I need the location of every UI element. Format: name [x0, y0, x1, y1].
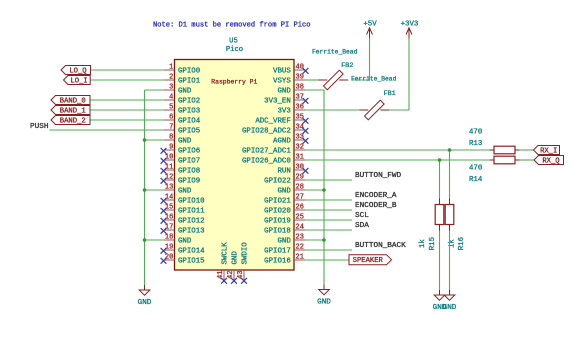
svg-text:13: 13: [165, 184, 173, 192]
svg-text:Pico: Pico: [226, 46, 243, 54]
U5 pin 5 (GPIO3): [164, 104, 200, 116]
svg-text:GPIO10: GPIO10: [178, 197, 205, 205]
U5 pin 13 (GND): [164, 184, 192, 196]
svg-text:GPIO8: GPIO8: [178, 167, 200, 175]
U5 pin 16 (GPIO12): [161, 214, 205, 226]
wire R13 to RX_I: [520, 149, 534, 151]
U5 pin 26 (GPIO20): [264, 204, 305, 216]
svg-text:GPIO13: GPIO13: [178, 227, 205, 235]
svg-text:3: 3: [169, 84, 173, 92]
svg-text:BAND_1: BAND_1: [60, 107, 86, 115]
wire pin 18 GND: [145, 239, 165, 241]
U5 pin 37 (3V3_EN): [264, 94, 308, 106]
svg-text:1: 1: [169, 64, 173, 72]
wire pin 21 to SPEAKER: [305, 259, 349, 261]
svg-text:GPIO22: GPIO22: [264, 177, 291, 185]
wire pin 26 to ENCODER_B: [305, 209, 352, 211]
ferrite bead FB2: [318, 70, 348, 90]
svg-text:GND: GND: [231, 251, 239, 265]
svg-text:AGND: AGND: [273, 137, 291, 145]
junction left GND pin 13: [143, 188, 147, 192]
svg-text:FB2: FB2: [341, 62, 353, 70]
U5 pin 11 (GPIO8): [161, 164, 201, 176]
wire pin 31 to R14: [305, 159, 494, 161]
svg-text:GPIO5: GPIO5: [178, 127, 200, 135]
svg-text:SPEAKER: SPEAKER: [353, 257, 384, 265]
svg-text:36: 36: [296, 104, 304, 112]
U5 pin 18 (GND): [164, 234, 192, 246]
svg-text:ENCODER_B: ENCODER_B: [355, 202, 397, 210]
svg-text:25: 25: [296, 214, 304, 222]
svg-text:GPIO14: GPIO14: [178, 247, 205, 255]
svg-text:470: 470: [469, 165, 482, 173]
svg-text:GPIO17: GPIO17: [264, 247, 291, 255]
U5 pin 7 (GPIO5): [164, 124, 200, 136]
svg-text:40: 40: [296, 64, 304, 72]
svg-text:U5: U5: [229, 38, 238, 46]
svg-text:24: 24: [296, 224, 304, 232]
wire pin 25 to SCL: [305, 219, 352, 221]
U5 pin 36 (3V3): [277, 104, 305, 116]
svg-text:43: 43: [237, 271, 245, 279]
wire pin 39 to FB2: [305, 79, 319, 81]
ground R15 GND: [433, 290, 447, 312]
svg-text:29: 29: [296, 174, 304, 182]
wire BAND_1 to pin 5: [90, 109, 164, 111]
svg-text:39: 39: [296, 74, 304, 82]
svg-text:GPIO16: GPIO16: [264, 257, 291, 265]
svg-text:R15: R15: [429, 237, 437, 250]
svg-text:30: 30: [296, 164, 304, 172]
svg-text:GPIO11: GPIO11: [178, 207, 205, 215]
svg-text:GPIO19: GPIO19: [264, 217, 291, 225]
resistor R14: [490, 156, 520, 164]
svg-text:GND: GND: [277, 237, 291, 245]
junction RX_Q / R15: [438, 158, 442, 162]
svg-text:6: 6: [169, 114, 173, 122]
wire FB1 to +3V3 corner: [389, 39, 409, 111]
svg-text:41: 41: [217, 271, 225, 279]
svg-text:RUN: RUN: [277, 167, 290, 175]
global label BAND_2: [51, 116, 90, 126]
ground center GND: [317, 285, 331, 307]
power +5V: [363, 20, 377, 38]
svg-text:470: 470: [469, 128, 482, 136]
svg-text:GPIO26_ADC0: GPIO26_ADC0: [242, 157, 291, 165]
svg-text:+5V: +5V: [363, 20, 377, 28]
wire LO_I to pin 2: [90, 79, 164, 81]
wire pin 32 to R13: [305, 149, 494, 151]
svg-text:GND: GND: [178, 87, 192, 95]
svg-text:GND: GND: [178, 187, 192, 195]
ferrite bead FB1: [359, 100, 389, 120]
svg-text:19: 19: [165, 244, 173, 252]
U5 pin 4 (GPIO2): [164, 94, 200, 106]
svg-text:GPIO27_ADC1: GPIO27_ADC1: [242, 147, 291, 155]
svg-text:7: 7: [169, 124, 173, 132]
wire pin 38 GND: [305, 90, 324, 285]
svg-text:35: 35: [296, 114, 304, 122]
U5 pin 24 (GPIO18): [264, 224, 305, 236]
svg-text:10: 10: [165, 154, 173, 162]
wire pin 24 to SDA: [305, 229, 352, 231]
U5 pin 27 (GPIO21): [264, 194, 305, 206]
wire R15 to ground: [439, 231, 441, 291]
svg-text:5: 5: [169, 104, 173, 112]
wire pin 22 to BUTTON_BACK: [305, 249, 352, 251]
U5 pin 39 (VSYS): [273, 74, 305, 86]
svg-text:GPIO6: GPIO6: [178, 147, 200, 155]
svg-text:R16: R16: [458, 237, 466, 250]
svg-text:23: 23: [296, 234, 304, 242]
wire left GND vertical: [144, 90, 146, 285]
junction left GND pin 18: [143, 238, 147, 242]
wire PUSH to pin 7: [50, 129, 165, 131]
U5 pin 30 (RUN): [277, 164, 308, 176]
svg-text:GPIO9: GPIO9: [178, 177, 200, 185]
global label BAND_1: [51, 106, 90, 116]
U5 pin 29 (GPIO22): [264, 174, 305, 186]
svg-text:LO_I: LO_I: [70, 77, 87, 85]
svg-text:20: 20: [165, 254, 173, 262]
svg-text:27: 27: [296, 194, 304, 202]
IC U5 Raspberry Pi Pico body: [175, 60, 295, 271]
svg-text:BUTTON_BACK: BUTTON_BACK: [355, 242, 406, 250]
U5 pin 3 (GND): [164, 84, 192, 96]
svg-text:15: 15: [165, 204, 173, 212]
resistor R15: [435, 199, 444, 231]
svg-text:BAND_2: BAND_2: [60, 117, 86, 125]
svg-text:SDA: SDA: [355, 222, 369, 230]
U5 pin 2 (GPIO1): [164, 74, 201, 86]
svg-text:28: 28: [296, 184, 304, 192]
svg-text:14: 14: [165, 194, 173, 202]
wire pin 8 GND: [145, 139, 165, 141]
svg-text:R13: R13: [469, 140, 482, 148]
svg-text:12: 12: [165, 174, 173, 182]
svg-text:9: 9: [169, 144, 173, 152]
svg-text:GPIO1: GPIO1: [178, 77, 201, 85]
svg-text:GND: GND: [277, 87, 291, 95]
svg-text:1k: 1k: [419, 239, 427, 248]
power +3V3: [401, 20, 419, 38]
svg-text:11: 11: [165, 164, 173, 172]
svg-text:PUSH: PUSH: [30, 123, 48, 131]
svg-text:GPIO4: GPIO4: [178, 117, 201, 125]
resistor R16: [445, 199, 454, 231]
wire pin 27 to ENCODER_A: [305, 199, 352, 201]
svg-text:RX_Q: RX_Q: [542, 157, 559, 165]
svg-text:GND: GND: [277, 187, 291, 195]
U5 pin 1 (GPIO0): [164, 64, 200, 76]
svg-text:GPIO28_ADC2: GPIO28_ADC2: [242, 127, 291, 135]
global label RX_Q: [534, 156, 564, 166]
U5 pin 41 (SWCLK) bottom: [217, 242, 230, 284]
wire R14 to RX_Q: [520, 159, 535, 161]
svg-text:3V3: 3V3: [277, 107, 290, 115]
svg-text:8: 8: [169, 134, 173, 142]
U5 pin 6 (GPIO4): [164, 114, 201, 126]
wire pin 13 GND: [145, 189, 165, 191]
U5 pin 9 (GPIO6): [161, 144, 201, 156]
svg-text:37: 37: [296, 94, 304, 102]
U5 pin 38 (GND): [277, 84, 305, 96]
svg-text:FB1: FB1: [384, 90, 396, 98]
wire pin 23 GND: [305, 239, 324, 241]
resistor R13: [490, 146, 520, 154]
svg-text:3V3_EN: 3V3_EN: [264, 97, 291, 105]
svg-text:GND: GND: [178, 137, 192, 145]
svg-text:17: 17: [165, 224, 173, 232]
svg-text:32: 32: [296, 144, 304, 152]
wire BAND_0 to pin 4: [90, 99, 164, 101]
U5 pin 19 (GPIO14): [161, 244, 206, 256]
svg-text:LO_Q: LO_Q: [69, 67, 86, 75]
global label RX_I: [534, 146, 560, 156]
svg-text:26: 26: [296, 204, 304, 212]
U5 pin 42 (GND) bottom: [227, 251, 240, 284]
U5 pin 31 (GPIO26_ADC0): [242, 154, 305, 166]
svg-text:SCL: SCL: [355, 212, 369, 220]
svg-text:21: 21: [296, 254, 304, 262]
U5 pin 12 (GPIO9): [161, 174, 201, 186]
wire FB2 to +5V corner: [352, 39, 370, 81]
U5 pin 43 (SWDIO) bottom: [237, 242, 250, 284]
svg-text:SWCLK: SWCLK: [221, 242, 229, 265]
svg-text:42: 42: [227, 271, 235, 279]
svg-text:SWDIO: SWDIO: [241, 242, 249, 265]
ground left GND: [138, 285, 152, 307]
svg-text:16: 16: [165, 214, 173, 222]
wire pin 28 GND: [305, 189, 324, 191]
svg-text:GPIO20: GPIO20: [264, 207, 291, 215]
svg-text:GND: GND: [178, 237, 192, 245]
ground R16 GND: [443, 290, 457, 312]
svg-text:BUTTON_FWD: BUTTON_FWD: [355, 172, 402, 180]
wire pin 29 to BUTTON_FWD: [305, 179, 352, 181]
global label SPEAKER: [349, 255, 392, 265]
junction center GND pin 23: [322, 238, 326, 242]
global label LO_Q: [61, 66, 91, 76]
svg-text:GPIO2: GPIO2: [178, 97, 200, 105]
svg-text:+3V3: +3V3: [401, 20, 419, 28]
svg-text:22: 22: [296, 244, 304, 252]
wire LO_Q to pin 1: [91, 69, 165, 71]
svg-text:31: 31: [296, 154, 304, 162]
wire pin 36 to FB1: [305, 109, 359, 111]
U5 pin 33 (AGND): [273, 134, 308, 146]
junction center GND pin 28: [322, 188, 326, 192]
U5 pin 22 (GPIO17): [264, 244, 305, 256]
svg-text:GND: GND: [138, 299, 152, 307]
svg-text:GPIO21: GPIO21: [264, 197, 291, 205]
U5 pin 40 (VBUS): [273, 64, 308, 76]
global label BAND_0: [51, 96, 90, 106]
svg-text:Note: D1 must be removed from: Note: D1 must be removed from PI Pico: [153, 21, 311, 29]
U5 pin 20 (GPIO15): [161, 254, 205, 266]
svg-text:GND: GND: [317, 299, 331, 307]
U5 pin 21 (GPIO16): [264, 254, 305, 266]
svg-text:2: 2: [169, 74, 173, 82]
svg-text:R14: R14: [469, 176, 483, 184]
U5 pin 34 (GPIO28_ADC2): [242, 124, 308, 136]
svg-text:Ferrite_Bead: Ferrite_Bead: [351, 76, 397, 83]
U5 pin 15 (GPIO11): [161, 204, 206, 216]
svg-text:ENCODER_A: ENCODER_A: [355, 192, 397, 200]
svg-text:34: 34: [296, 124, 304, 132]
svg-text:GPIO12: GPIO12: [178, 217, 205, 225]
global label LO_I: [64, 76, 91, 86]
junction left GND pin 8: [143, 138, 147, 142]
svg-text:GND: GND: [443, 304, 457, 312]
junction RX_I / R16: [448, 148, 452, 152]
U5 pin 10 (GPIO7): [161, 154, 201, 166]
svg-text:18: 18: [165, 234, 173, 242]
U5 pin 17 (GPIO13): [161, 224, 205, 236]
wire pin 3 GND: [145, 89, 165, 91]
svg-text:GPIO0: GPIO0: [178, 67, 200, 75]
svg-text:GPIO15: GPIO15: [178, 257, 205, 265]
svg-text:GPIO7: GPIO7: [178, 157, 200, 165]
svg-text:ADC_VREF: ADC_VREF: [255, 117, 290, 125]
U5 pin 14 (GPIO10): [161, 194, 205, 206]
wire junction to R16: [449, 150, 451, 199]
wire junction to R15: [439, 160, 441, 199]
U5 pin 25 (GPIO19): [264, 214, 305, 226]
svg-text:RX_I: RX_I: [540, 147, 557, 155]
wire BAND_2 to pin 6: [90, 119, 164, 121]
svg-text:33: 33: [296, 134, 304, 142]
svg-text:VSYS: VSYS: [273, 77, 291, 85]
svg-text:GPIO18: GPIO18: [264, 227, 291, 235]
svg-text:BAND_0: BAND_0: [60, 97, 86, 105]
wire R16 to ground: [449, 231, 451, 291]
svg-text:GPIO3: GPIO3: [178, 107, 200, 115]
U5 pin 28 (GND): [277, 184, 305, 196]
svg-text:VBUS: VBUS: [273, 67, 291, 75]
svg-text:38: 38: [296, 84, 304, 92]
U5 pin 8 (GND): [164, 134, 192, 146]
U5 pin 32 (GPIO27_ADC1): [242, 144, 305, 156]
U5 pin 35 (ADC_VREF): [255, 114, 308, 126]
U5 pin 23 (GND): [277, 234, 305, 246]
svg-text:Raspberry Pi: Raspberry Pi: [211, 79, 257, 86]
svg-text:4: 4: [169, 94, 173, 102]
svg-text:Ferrite_Bead: Ferrite_Bead: [312, 49, 358, 56]
